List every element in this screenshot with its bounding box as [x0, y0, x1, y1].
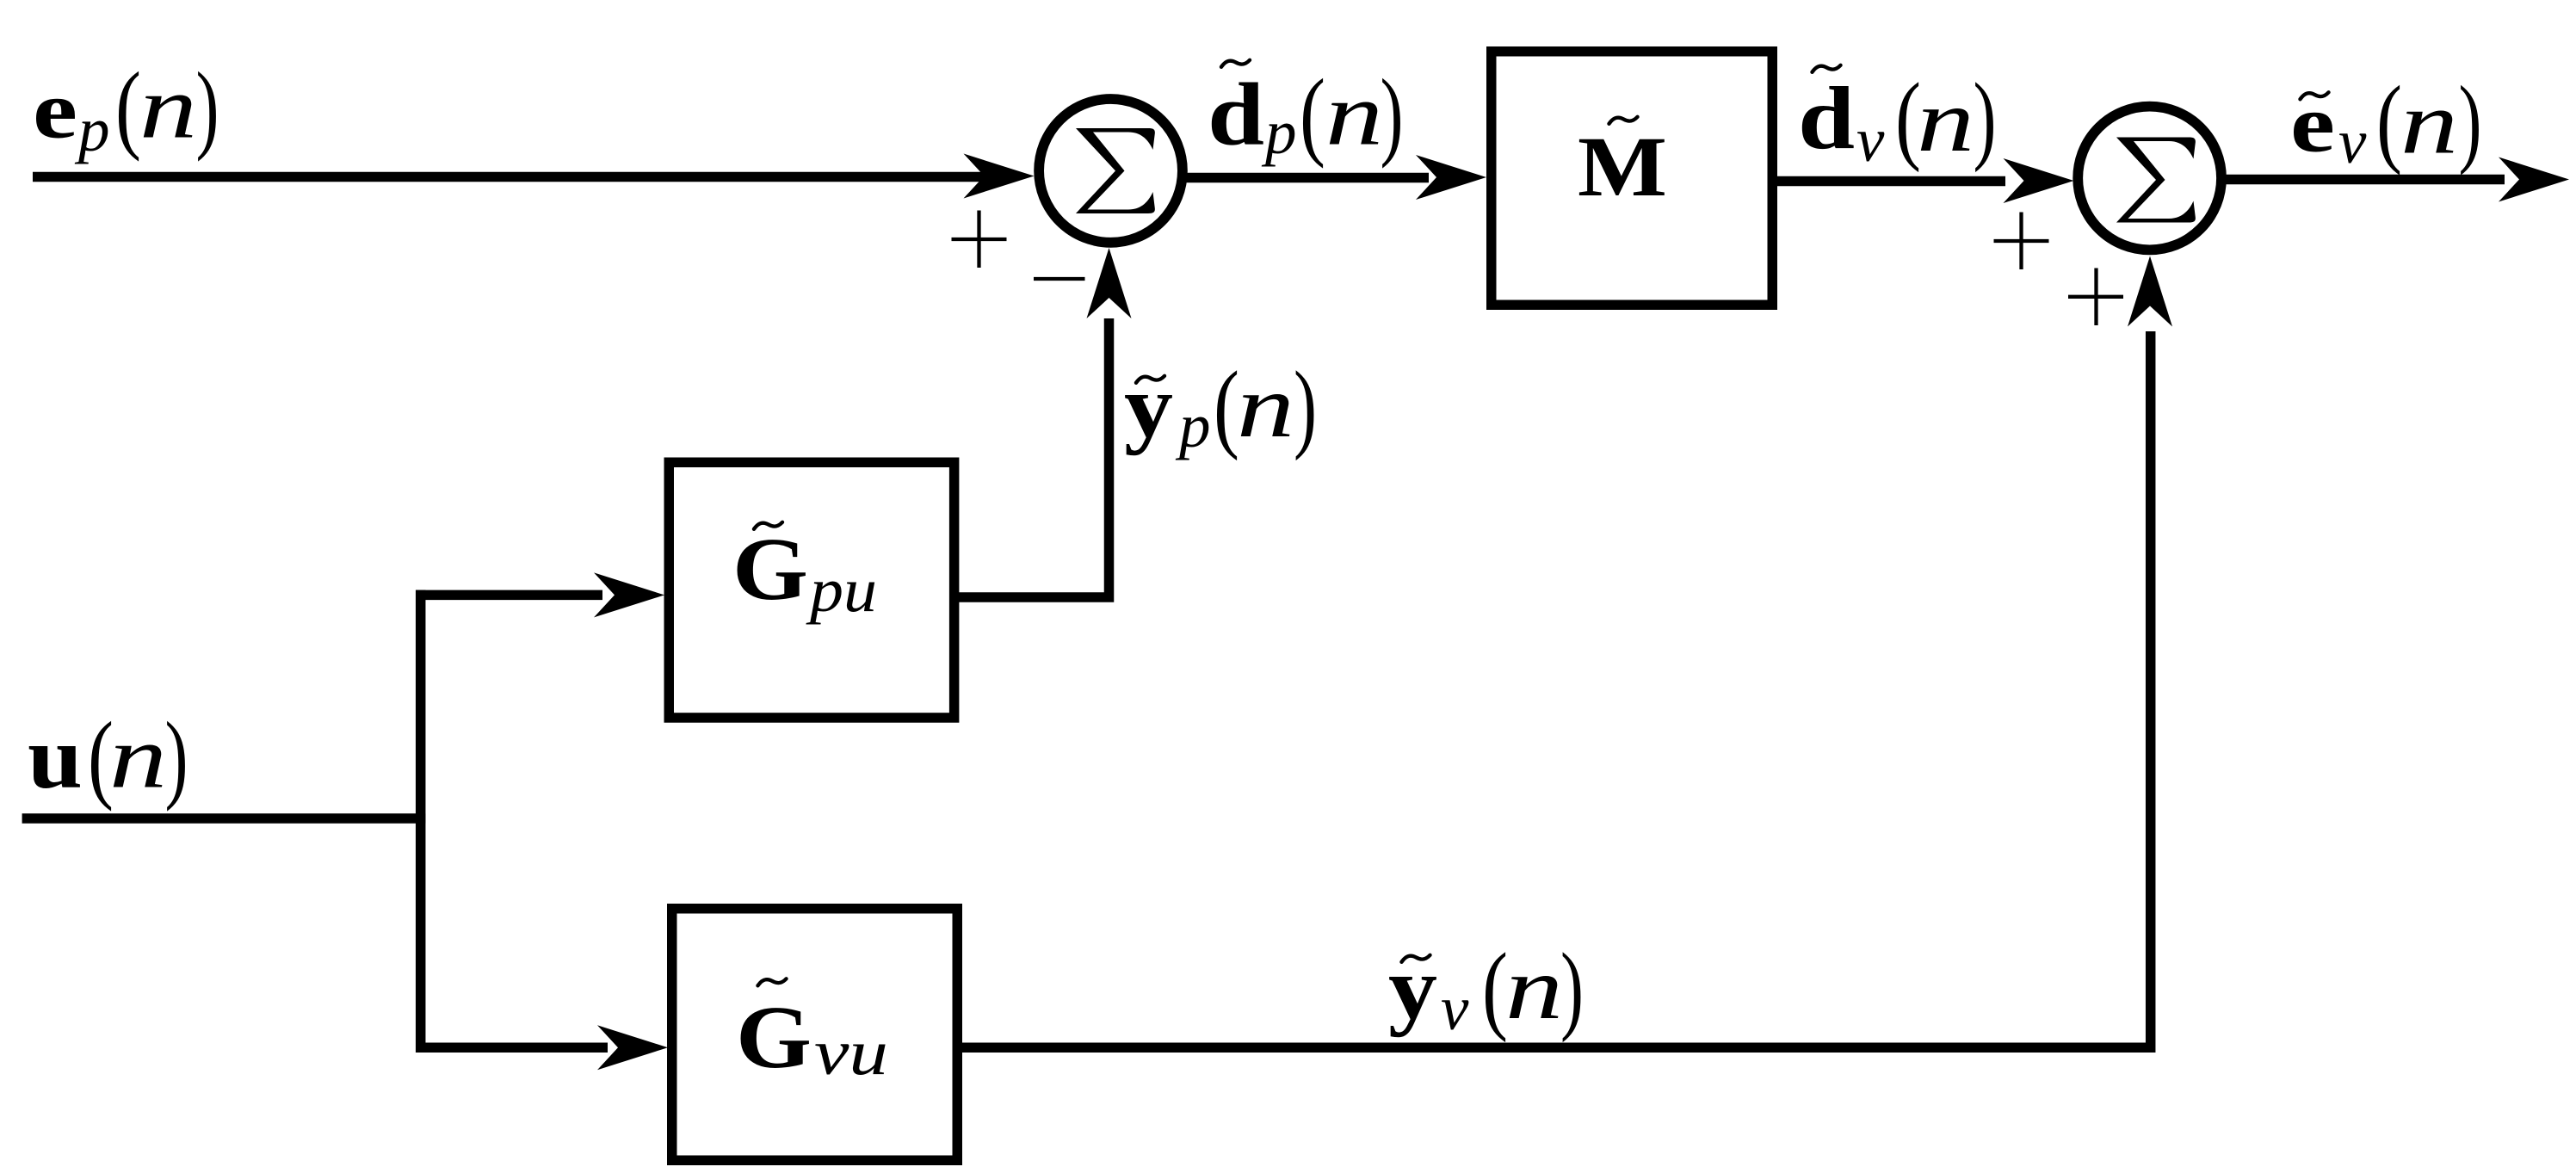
label G_vu with tilde — [736, 979, 888, 1089]
wire: branch into G_vu — [416, 1042, 608, 1053]
output arrowhead — [2499, 157, 2569, 202]
svg-text:n: n — [1505, 939, 1563, 1038]
svg-text:v: v — [2338, 107, 2367, 176]
node label d_v(n) — [1798, 64, 1997, 176]
node label d_p(n) — [1208, 59, 1404, 169]
wire: S2 output e_v(n) — [2225, 175, 2505, 185]
svg-text:y: y — [1124, 357, 1173, 456]
arrowhead up into S2 bottom — [2128, 256, 2172, 327]
arrowhead into summing node S1 — [964, 154, 1035, 199]
wire: u(n) input line — [22, 813, 426, 824]
wire: G_vu output right and up to S2, y_v(n) — [959, 331, 2151, 1047]
svg-text:n: n — [1325, 65, 1383, 164]
wire: G_pu output up to S1 — [957, 318, 1109, 597]
svg-text:n: n — [1237, 357, 1294, 456]
plus sign at S1 left input — [952, 211, 1007, 269]
node label y_p(n) — [1124, 352, 1317, 461]
svg-text:n: n — [1917, 71, 1974, 170]
node label y_v(n) — [1388, 934, 1584, 1044]
svg-text:n: n — [2400, 74, 2458, 173]
node label u(n) — [28, 702, 188, 812]
svg-text:p: p — [1261, 97, 1297, 167]
arrowhead up into S1 bottom — [1087, 248, 1132, 318]
svg-text:d: d — [1208, 65, 1264, 164]
svg-text:e: e — [2290, 78, 2335, 170]
svg-text:v: v — [1856, 105, 1885, 175]
sigma symbol in S1 — [1076, 128, 1155, 213]
svg-text:M: M — [1578, 119, 1667, 214]
svg-text:G: G — [732, 520, 808, 619]
node label e_p(n) — [33, 52, 219, 164]
svg-text:u: u — [28, 708, 83, 807]
label G_pu with tilde — [732, 520, 877, 625]
plus sign at S2 bottom input — [2068, 269, 2123, 326]
svg-text:(: ( — [115, 52, 141, 162]
svg-text:(: ( — [2376, 66, 2402, 176]
block G_vu (box) — [672, 909, 958, 1161]
svg-text:): ) — [196, 52, 219, 162]
label M with tilde — [1578, 117, 1667, 214]
svg-text:v: v — [1441, 973, 1469, 1043]
svg-text:): ) — [1974, 64, 1997, 173]
svg-text:d: d — [1798, 69, 1855, 168]
svg-text:e: e — [33, 65, 77, 156]
svg-text:(: ( — [1214, 352, 1239, 461]
svg-text:p: p — [1175, 391, 1211, 460]
block G_pu (box) — [669, 462, 954, 718]
svg-text:): ) — [1560, 934, 1584, 1043]
summing node S2 (circle) — [2078, 107, 2221, 250]
svg-text:vu: vu — [814, 1017, 888, 1089]
svg-text:(: ( — [1300, 59, 1325, 169]
svg-text:): ) — [165, 702, 188, 812]
svg-text:(: ( — [1482, 934, 1508, 1043]
arrowhead into summing node S2 — [2004, 158, 2074, 203]
wire: branch into G_pu — [416, 590, 602, 601]
svg-text:n: n — [109, 708, 167, 807]
block M (box) — [1492, 52, 1773, 306]
summing node S1 (circle) — [1039, 99, 1183, 243]
node label e_v(n) — [2290, 66, 2482, 176]
plus sign at S2 left input — [1994, 213, 2049, 270]
arrowhead into G_pu — [594, 572, 664, 617]
sigma symbol in S2 — [2116, 138, 2196, 223]
svg-text:n: n — [139, 59, 197, 157]
svg-text:pu: pu — [806, 555, 877, 625]
arrowhead into G_vu — [597, 1025, 668, 1070]
minus sign at S1 bottom input — [1034, 277, 1085, 281]
svg-text:): ) — [1294, 352, 1317, 461]
arrowhead into M box — [1416, 155, 1486, 200]
svg-text:G: G — [736, 988, 812, 1087]
svg-text:): ) — [2459, 66, 2482, 176]
wire: branch vertical at junction — [416, 590, 426, 1053]
svg-text:p: p — [74, 95, 110, 164]
svg-text:): ) — [1381, 59, 1404, 169]
wire: M to S2, d_v(n) — [1775, 176, 2005, 187]
wire: S1 to M box, d_p(n) — [1184, 173, 1429, 183]
svg-text:y: y — [1388, 939, 1437, 1038]
wire: e_p(n) input line — [33, 172, 990, 182]
